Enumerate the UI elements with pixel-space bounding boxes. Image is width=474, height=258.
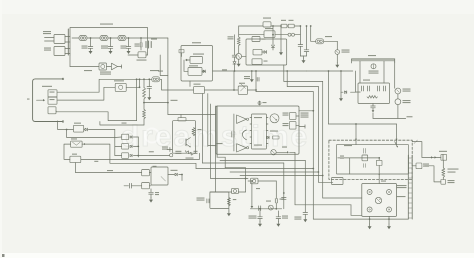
ic U28 [441, 180, 455, 185]
wire [144, 102, 168, 104]
wire [425, 166, 441, 182]
arrow [37, 99, 46, 101]
label [397, 196, 406, 197]
ground [147, 95, 151, 100]
ic U27 [439, 151, 447, 160]
wire [340, 70, 355, 92]
wire [76, 163, 142, 173]
capacitor C11 [232, 132, 234, 138]
ground [339, 92, 343, 101]
wire [290, 152, 296, 205]
resistor R5 [143, 79, 146, 103]
capacitor C19 [249, 211, 263, 222]
ground [127, 49, 131, 54]
capacitor C7 [298, 26, 303, 56]
relay K3 [71, 138, 83, 147]
varistor RV1 [271, 147, 289, 156]
ic U14 [283, 113, 300, 120]
ic U4 [186, 57, 203, 64]
wire [294, 25, 301, 27]
buffer U22 [248, 178, 258, 184]
capacitor C24 [371, 104, 376, 119]
ic U21 [142, 183, 151, 189]
ic U24 [362, 148, 368, 167]
ground [300, 52, 306, 64]
wire [394, 61, 396, 88]
capacitor C2 [101, 38, 113, 49]
wire [202, 162, 283, 164]
diode D4 [267, 136, 269, 139]
wire [70, 55, 99, 67]
wire [114, 130, 116, 156]
amplifier A1 [112, 63, 122, 70]
wire [87, 37, 100, 39]
crystal Y2 [238, 83, 247, 95]
resistor R11 [442, 160, 459, 179]
wire [57, 87, 115, 100]
transistor Q2 [186, 138, 191, 148]
wire [168, 103, 216, 115]
capacitor C6 [228, 35, 237, 57]
label phi1 [258, 101, 267, 105]
wire [295, 205, 362, 216]
op-amp U12A [237, 115, 249, 123]
wire [126, 79, 140, 88]
wire [137, 156, 139, 158]
wire [360, 61, 384, 83]
ground [258, 222, 262, 227]
ground [276, 222, 280, 227]
terminal [367, 207, 372, 212]
wire [318, 181, 332, 183]
wire [324, 41, 338, 50]
lamp DS1 [335, 50, 350, 55]
bias frame [173, 121, 196, 154]
wire [250, 208, 281, 210]
wire [56, 112, 136, 121]
resistor R6 [143, 103, 146, 125]
capacitor C15 [162, 147, 172, 152]
shield enclosure [329, 140, 412, 179]
led DS2 [270, 114, 279, 123]
wire [395, 124, 397, 145]
wire [67, 130, 115, 138]
arrow [251, 180, 254, 208]
label [42, 86, 52, 87]
coupling brace [242, 130, 246, 140]
wire [284, 65, 323, 198]
wire [286, 70, 318, 182]
wire [184, 60, 188, 71]
lowpass frame [210, 192, 229, 208]
wire [233, 114, 235, 151]
wire [323, 197, 362, 199]
terminal [367, 190, 372, 195]
wire [72, 37, 79, 39]
wire [310, 25, 316, 41]
meter M1 [395, 88, 411, 94]
capacitor C18 [259, 206, 261, 211]
diode D10 [345, 91, 347, 94]
wire [233, 71, 235, 90]
ic U20 [142, 166, 157, 176]
wire [57, 78, 152, 92]
resistor R12 [237, 26, 240, 53]
ic U10 [253, 49, 266, 55]
ic U29 [332, 178, 344, 185]
wire [215, 106, 217, 192]
wire [220, 160, 305, 212]
wire [239, 34, 264, 36]
wire [299, 125, 305, 128]
ic U11 [252, 59, 268, 65]
crystal Y1 [128, 52, 148, 61]
ic U26 [412, 163, 429, 169]
ic U25 [376, 157, 382, 184]
ground [109, 49, 113, 54]
wire [86, 144, 197, 168]
wire [126, 37, 148, 39]
wire [258, 181, 276, 199]
ground [149, 197, 153, 202]
buffer U2 [99, 63, 111, 70]
wire [45, 38, 55, 42]
resistor R4 [270, 131, 279, 140]
label [150, 70, 163, 72]
wire [181, 175, 183, 181]
control frame [246, 39, 287, 65]
capacitor C22 [294, 213, 307, 223]
ic U6 [194, 84, 239, 94]
wire [64, 144, 71, 159]
connector J1 [43, 31, 70, 44]
rotor [375, 197, 381, 203]
wire [167, 100, 178, 104]
capacitor C21 [282, 192, 287, 199]
ic U9 [252, 37, 266, 42]
wire [201, 94, 203, 163]
capacitor C9 [362, 86, 370, 91]
capacitor C4 [135, 38, 143, 50]
ground [237, 62, 241, 67]
ground [244, 70, 254, 82]
driver D6 [115, 134, 139, 140]
wire [235, 70, 307, 72]
op-amp U12B [237, 144, 249, 152]
wire [242, 55, 246, 57]
driver U16 [115, 83, 126, 91]
diode D9 [168, 170, 183, 176]
wire [210, 104, 212, 179]
capacitor C17 [197, 198, 210, 203]
diode D2 [275, 33, 300, 36]
wire [217, 106, 245, 179]
ground [335, 63, 339, 68]
driver D7 [115, 144, 139, 150]
inductor L2 [118, 36, 126, 41]
shield frame [68, 24, 147, 56]
decorative watermark [121, 120, 309, 153]
ground [89, 49, 93, 54]
terminal [387, 207, 392, 212]
wire [81, 153, 200, 159]
resistor R8 [192, 128, 202, 136]
connector K2 [48, 107, 56, 114]
wire [313, 218, 408, 220]
capacitor C14 [149, 189, 159, 198]
meter M2 [395, 94, 411, 105]
motor M3 [362, 181, 397, 217]
wire [207, 94, 209, 147]
wire [100, 122, 144, 126]
diode D11 [82, 143, 86, 145]
module frame [151, 167, 168, 185]
bus bar [352, 55, 395, 63]
transistor Q1 [236, 53, 242, 61]
fuse F2 [316, 36, 332, 44]
wire [136, 79, 138, 120]
label [340, 156, 344, 159]
diode D1 [233, 57, 236, 71]
wire [336, 54, 338, 62]
ic U7 [263, 18, 271, 28]
ground [279, 25, 283, 55]
capacitor C8 [304, 25, 309, 51]
chassis bracket [33, 78, 64, 122]
inductor L1 [100, 36, 108, 41]
wire [211, 178, 248, 180]
wire [306, 70, 352, 72]
connector J2 [44, 47, 70, 56]
ic U5 [188, 65, 206, 75]
capacitor C12 [147, 79, 152, 95]
wire [160, 79, 194, 90]
transistor Q3 [266, 201, 273, 211]
wire [137, 137, 139, 156]
label [397, 185, 407, 188]
wire [138, 151, 169, 155]
wire [412, 140, 422, 157]
wire [196, 168, 314, 170]
label [100, 72, 111, 75]
wire [256, 92, 313, 220]
ic U15 [283, 122, 300, 130]
wire [148, 38, 168, 103]
terminal [387, 190, 392, 195]
wire [338, 157, 379, 159]
wire [240, 175, 324, 177]
ic U19 [70, 154, 98, 163]
resistor R2 [287, 24, 294, 28]
buffer U23 [232, 188, 260, 194]
module frame [181, 42, 213, 81]
capacitor C10 [378, 86, 386, 91]
capacitor C20 [276, 211, 288, 222]
wire [108, 37, 118, 39]
capacitor C16 [275, 199, 283, 209]
wire [189, 81, 191, 87]
wire [422, 156, 441, 158]
ground [387, 216, 391, 229]
capacitor C13 [124, 183, 142, 188]
wire [328, 70, 397, 125]
label [27, 99, 30, 100]
fuse F1 [79, 36, 87, 41]
lamp FC [369, 64, 379, 74]
resistor R3 [367, 96, 378, 99]
label [84, 70, 92, 71]
wire [210, 191, 232, 193]
connector P1 [146, 39, 157, 49]
arrow [395, 142, 398, 148]
wire [373, 105, 413, 119]
wire [271, 25, 281, 27]
wire [160, 55, 168, 76]
ground [227, 208, 231, 216]
label [193, 54, 204, 55]
resistor R10 [227, 198, 236, 206]
label [301, 113, 309, 118]
diode D5 [84, 128, 115, 131]
ic U8 [264, 28, 275, 38]
connector K1 [48, 90, 57, 104]
wire [355, 124, 357, 145]
ground [368, 216, 372, 229]
cable shield [408, 155, 412, 219]
wire [283, 163, 285, 209]
label [222, 69, 227, 70]
wire [299, 110, 314, 112]
capacitor C3 [121, 38, 131, 49]
inner frame [336, 145, 408, 174]
resistor R1 [281, 20, 294, 28]
fuse F3 [152, 77, 160, 82]
wire [349, 158, 351, 174]
driver D8 [115, 153, 139, 159]
main frame [216, 106, 299, 154]
zener D3 [271, 25, 274, 50]
filter box [356, 80, 390, 104]
wire [213, 70, 236, 72]
label [114, 80, 124, 81]
capacitor C5 [255, 70, 259, 92]
wire [230, 171, 319, 173]
wire [208, 143, 223, 146]
wire [58, 121, 74, 131]
wire [238, 178, 246, 192]
wire [239, 25, 263, 27]
svg-text:dreamstime: dreamstime [121, 120, 309, 153]
capacitor C23 [179, 49, 184, 56]
label [344, 145, 352, 146]
junction [170, 151, 198, 157]
capacitor C1 [82, 38, 93, 49]
resistor R9 [185, 150, 194, 159]
ic U13 [250, 114, 268, 149]
ic U17 [73, 123, 83, 133]
wire [248, 89, 257, 91]
resistor R7 [178, 115, 186, 121]
